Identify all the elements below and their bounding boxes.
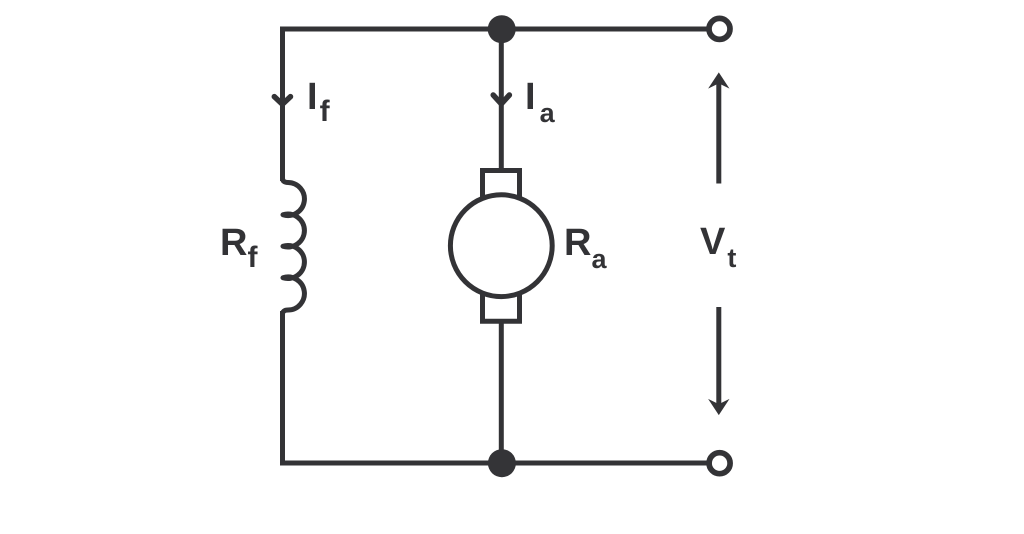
wire middle vertical upper [499, 29, 504, 171]
motor armature circle Ra [450, 195, 552, 297]
label If [307, 78, 330, 116]
label Rf [220, 224, 257, 262]
label Vt [700, 223, 736, 261]
terminal top right [709, 18, 730, 39]
motor brush top terminal block [483, 171, 520, 201]
wire top rail [283, 27, 710, 32]
label Ra [564, 224, 606, 262]
arrow Vt up arrow [716, 82, 721, 184]
junction node bottom [488, 449, 516, 477]
motor brush bottom terminal block [483, 292, 520, 321]
wire middle vertical lower [499, 320, 504, 463]
wire left vertical lower [280, 311, 285, 466]
arrow Vt down arrow [716, 307, 721, 406]
arrow Ia current arrow [493, 95, 509, 104]
terminal bottom right [709, 453, 730, 474]
junction node top [488, 15, 516, 43]
wire left vertical upper [280, 27, 285, 182]
label Ia [525, 78, 555, 116]
inductor Rf coil [283, 178, 305, 315]
wire bottom rail [280, 461, 710, 466]
arrow If current arrow [274, 97, 290, 105]
